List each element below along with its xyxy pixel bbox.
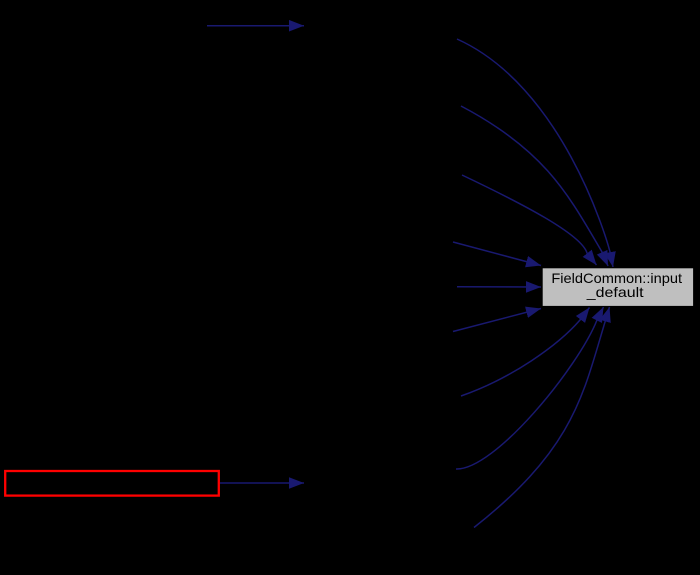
wire: edge caller1 top arrow — [207, 25, 304, 27]
wire: edge from red node — [220, 482, 304, 484]
wire: straight e6 — [453, 309, 541, 332]
svg-text:_default: _default — [586, 285, 644, 300]
wire: curve c7 — [461, 308, 590, 397]
wire: curve c3 — [462, 175, 597, 265]
wire: curve c9 — [474, 307, 610, 528]
wire: straight e4 — [453, 242, 541, 266]
wire: curve c8 — [456, 307, 604, 469]
wire: curve c2 — [461, 106, 608, 266]
node red (truncated caller) — [5, 471, 219, 496]
node FieldCommon::input_default — [542, 268, 693, 307]
wire: straight e5 — [457, 286, 541, 288]
wire: curve c1 — [457, 39, 613, 267]
svg-text:FieldCommon::input: FieldCommon::input — [551, 271, 682, 286]
